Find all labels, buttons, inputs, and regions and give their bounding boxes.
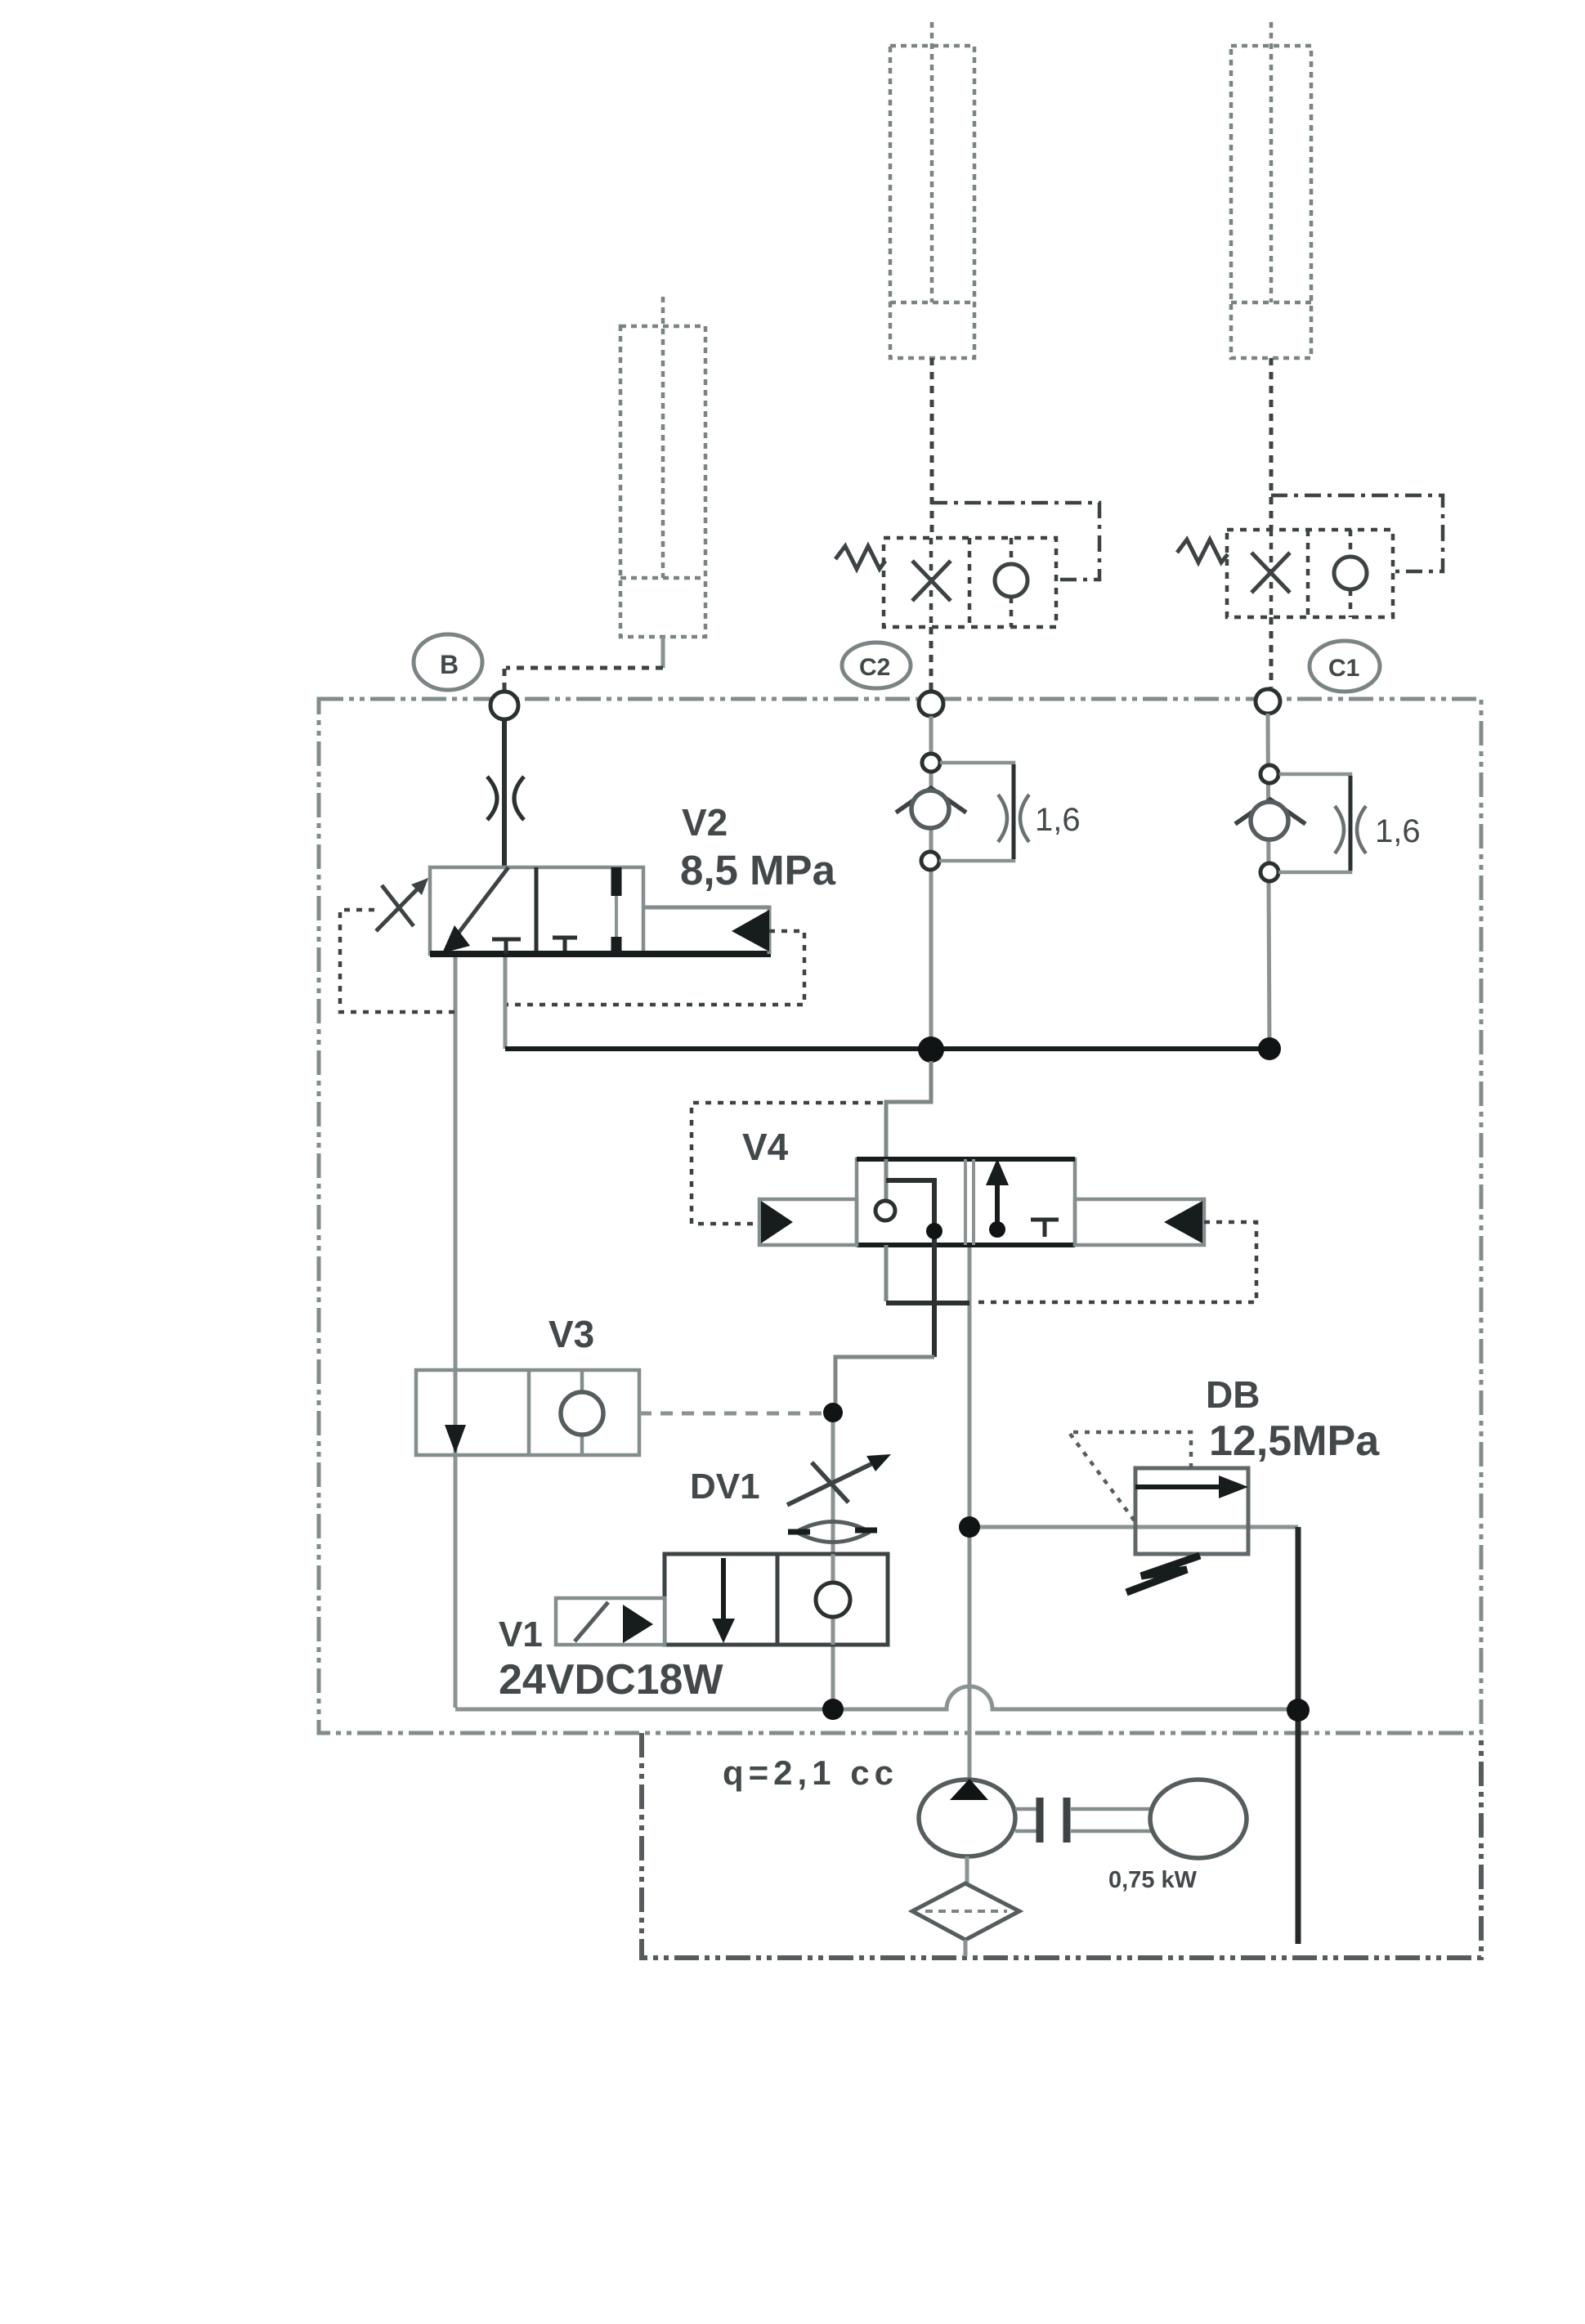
label balloon B (414, 634, 482, 690)
wire: link to DV1 column (835, 1357, 934, 1413)
wire C1 block to port C1 (dashed) (1269, 617, 1274, 687)
DB pilot line (dotted) (1070, 1432, 1191, 1522)
valve V2 body (430, 867, 643, 954)
valve V4 body (857, 1159, 1075, 1245)
wire: V4 left cell port down (gray) (884, 1245, 889, 1301)
junction on C2 line (918, 1037, 944, 1063)
V4 right pilot arrow box (1075, 1199, 1204, 1245)
junction on C1 line (1258, 1037, 1281, 1060)
V2 right pilot dashed loop (507, 931, 804, 1005)
V1 right cell line + check circle (831, 1554, 835, 1645)
cylinder CYL-C2 barrel (890, 22, 974, 358)
wire: pump pressure line up to V4 (968, 1245, 972, 1779)
svg-text:C2: C2 (859, 654, 890, 681)
relief valve DB body (1135, 1468, 1248, 1554)
check ball circle (C2 block) (995, 564, 1028, 597)
V2 flow diagonal with arrowhead (451, 867, 508, 943)
svg-text:DB: DB (1206, 1373, 1260, 1416)
check ball circle (C1 block) (1334, 557, 1367, 589)
wire CYL-B to port B (dashed) (661, 637, 665, 668)
svg-text:1,6: 1,6 (1035, 802, 1081, 838)
wire: P feed from junction into V4 (886, 1061, 931, 1161)
orifice 1,6 symbol (C1) (1335, 806, 1366, 853)
V1 solenoid box (556, 1598, 665, 1645)
power unit boundary (lower dash-dot box) (642, 1733, 1481, 1958)
cylinder CYL-C1 barrel (1231, 22, 1311, 358)
svg-text:V4: V4 (742, 1126, 789, 1168)
svg-text:C1: C1 (1328, 655, 1359, 682)
wire CYL-C1 to counterbalance block (dashed) (1269, 358, 1274, 530)
svg-text:1,6: 1,6 (1375, 813, 1421, 849)
pump P1 (919, 1780, 1015, 1856)
tank return line with crossover hop (455, 1686, 1298, 1709)
svg-text:24VDC18W: 24VDC18W (499, 1656, 723, 1704)
V1 left cell arrow down (721, 1558, 726, 1623)
V2 left pilot dashed loop (340, 910, 454, 1012)
counterbalance valve block above C2 (dashed box) (884, 538, 1056, 627)
wire pump to filter (965, 1856, 969, 1885)
node below check C1 (1260, 863, 1278, 881)
wire: V4 bottom dark link (932, 1245, 937, 1357)
spring (C2 block) (835, 546, 885, 569)
wire: C2 branch line down to junction (929, 716, 934, 1049)
pilot line (C1 block) (1271, 495, 1443, 571)
DB spring (1126, 1556, 1200, 1592)
port C2 circle (919, 692, 943, 716)
V4 left cell flow elbow (886, 1180, 934, 1245)
svg-text:V3: V3 (548, 1313, 594, 1355)
wire V2 drain line down to tank line (454, 954, 458, 1708)
coupling shaft (1015, 1809, 1037, 1831)
svg-text:q=2,1 cc: q=2,1 cc (723, 1753, 898, 1792)
svg-text:8,5 MPa: 8,5 MPa (680, 847, 836, 893)
V4 right cell arrow up (995, 1177, 1000, 1231)
wire: V3 to DV1 junction (dashed) (639, 1412, 824, 1416)
V3 flow line through left cell with arrow (454, 1370, 458, 1455)
throttle DV1 (eye) (796, 1522, 870, 1543)
check valve C1 (seat + ball) (1235, 799, 1305, 824)
svg-text:B: B (440, 650, 459, 679)
port B circle (490, 692, 518, 719)
V3 check ball (580, 1370, 584, 1393)
closed position X (C2 block) (912, 561, 951, 601)
V2 pilot actuator box with arrow (643, 907, 769, 954)
svg-text:V1: V1 (499, 1614, 543, 1655)
V4 right pilot dashed loop (974, 1222, 1256, 1302)
wire: C1 branch line down to junction (1268, 714, 1269, 1049)
valve V4 pilot dashed box (left) (692, 1103, 883, 1224)
motor M1 (1150, 1780, 1247, 1858)
svg-text:0,75 kW: 0,75 kW (1108, 1867, 1198, 1893)
valve V1 body (665, 1554, 888, 1645)
svg-text:V2: V2 (682, 801, 728, 844)
V4 right cell T symbol (1031, 1220, 1059, 1237)
svg-text:12,5MPa: 12,5MPa (1209, 1417, 1380, 1465)
orifice 1,6 symbol (C2) (998, 795, 1029, 842)
spring (C1 block) (1177, 540, 1228, 562)
closed position X (C1 block) (1251, 553, 1290, 593)
V2 adjustment arrow with slash (376, 883, 423, 931)
port C1 circle (1256, 689, 1280, 714)
bypass orifice branch C1 (1278, 774, 1350, 872)
pilot line (C2 block) (931, 503, 1099, 580)
junction on pump line to DB (959, 1516, 980, 1538)
wire port B down to V2 (502, 719, 507, 867)
V4 left cell orifice circle (884, 1159, 889, 1200)
manifold boundary (dash-dot box) (319, 699, 1481, 1733)
counterbalance valve block above C1 (dashed box) (1227, 530, 1393, 617)
bypass orifice branch C2 (939, 763, 1014, 861)
label balloon C1 (1310, 641, 1380, 692)
V2 drain T symbol (middle cell) (553, 938, 577, 951)
junction V1 drain / tank line (822, 1699, 844, 1720)
V2 spool seat line with end blocks (615, 867, 618, 954)
wire: DB return down to tank (1296, 1527, 1301, 1944)
node below check C2 (921, 852, 939, 870)
svg-text:DV1: DV1 (690, 1466, 760, 1507)
label balloon C2 (842, 643, 911, 688)
V4 left pilot arrow box (759, 1199, 857, 1245)
wire: pressure branch to DB (969, 1525, 1298, 1529)
junction DB return / tank line (1287, 1699, 1310, 1722)
wire CYL-C2 to counterbalance block (dashed) (930, 358, 934, 538)
wire C2 block to port C2 (dashed) (929, 627, 934, 692)
throttle DV1 adjustment arrow (787, 1459, 881, 1505)
orifice on B line (487, 777, 524, 820)
junction V4-link / V3 / DV1 (823, 1403, 843, 1422)
check valve C2 (seat + ball) (896, 788, 966, 813)
wire: DV1 column (831, 1413, 835, 1709)
wire: V2 output bus to cylinder branches (505, 1046, 1269, 1051)
cylinder CYL-B barrel (620, 297, 705, 637)
V2 drain T symbol (left cell) (492, 939, 521, 954)
valve V3 body (416, 1370, 639, 1455)
filter F1 (912, 1883, 1019, 1940)
node on C2 line (922, 754, 940, 772)
wire V2 output down (504, 954, 508, 1049)
node on C1 line (1260, 765, 1278, 783)
